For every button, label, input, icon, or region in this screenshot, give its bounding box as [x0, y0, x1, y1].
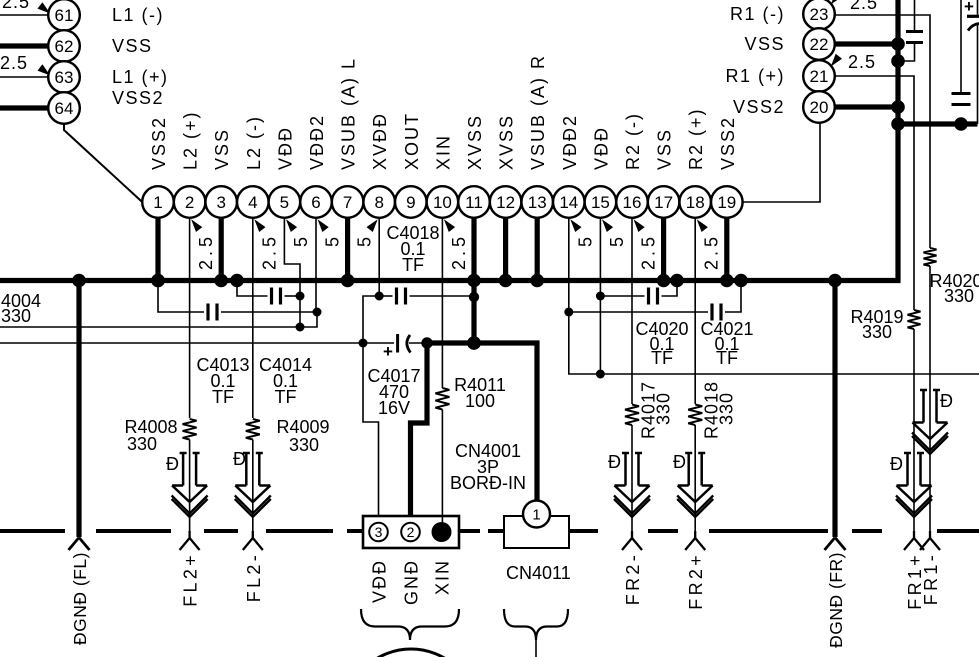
svg-text:2.5: 2.5 [259, 233, 279, 270]
wire pin 64 to pin 1 [64, 124, 142, 202]
wire pin 2 to R4008 [189, 218, 191, 418]
svg-text:BORĐ-IN: BORĐ-IN [450, 473, 526, 493]
pin 1 [142, 186, 174, 218]
wire pin 16 to R4017 [631, 218, 633, 404]
wire pin 20 to pin 19 [743, 123, 820, 202]
junction pin1/C4013 on bus [151, 274, 165, 288]
svg-text:FR2+: FR2+ [686, 552, 706, 610]
CN4001 pin 3 [369, 523, 388, 542]
svg-text:CN4011: CN4011 [506, 563, 571, 583]
wire 2.5V net to pin 63 [0, 76, 48, 78]
capacitor B [952, 92, 971, 95]
voltage arrow 2.5V at pin 4 [254, 219, 265, 232]
voltage arrow 5V at pin 6 [318, 219, 329, 232]
svg-text:VĐĐ: VĐĐ [275, 126, 295, 170]
svg-text:2.5: 2.5 [196, 233, 216, 270]
wire DGND(FL) from bus to board edge [76, 281, 81, 538]
svg-text:2.5: 2.5 [449, 233, 469, 270]
pin 17 [648, 186, 680, 218]
crystal outline (cut off at bottom) [345, 649, 477, 657]
svg-text:2.5: 2.5 [702, 233, 722, 270]
svg-text:330: 330 [717, 392, 737, 425]
junction pin22 [891, 37, 905, 51]
svg-text:TF: TF [212, 387, 234, 407]
resistor R4018 330 [688, 405, 702, 426]
wire bus to capacitor C4014 [237, 281, 268, 297]
svg-text:Đ: Đ [166, 454, 179, 474]
svg-text:FL2-: FL2- [244, 552, 264, 602]
svg-text:R1 (+): R1 (+) [725, 66, 785, 86]
pin 9 [395, 186, 427, 218]
pin 19 [711, 186, 743, 218]
pin 11 [458, 186, 490, 218]
wire C4020 to pin 15 node [600, 295, 644, 297]
capacitor C4014 [270, 288, 273, 305]
signal arrow FR2- [624, 453, 627, 486]
wire bus to capacitor C4020 [662, 281, 678, 297]
svg-text:XIN: XIN [433, 559, 453, 595]
svg-text:62: 62 [55, 37, 74, 56]
capacitor C4020 [647, 288, 650, 305]
svg-text:2.5: 2.5 [848, 52, 876, 72]
CN4001 pin 1 (XIN, keyed) [432, 522, 452, 542]
svg-text:R1 (-): R1 (-) [730, 4, 785, 24]
svg-text:GNĐ: GNĐ [402, 559, 422, 605]
wire pin 19 to VSS bus [724, 218, 729, 281]
svg-text:2: 2 [185, 193, 194, 212]
svg-text:2: 2 [407, 524, 415, 540]
svg-text:330: 330 [862, 322, 892, 342]
svg-text:XVSS: XVSS [465, 114, 485, 170]
junction node A2 [296, 323, 305, 332]
svg-text:8: 8 [374, 193, 383, 212]
svg-text:L2 (+): L2 (+) [181, 110, 201, 170]
svg-text:2.5: 2.5 [0, 53, 28, 73]
svg-text:5: 5 [280, 193, 289, 212]
svg-text:63: 63 [55, 68, 74, 87]
svg-text:VSS: VSS [744, 34, 785, 54]
svg-text:ĐGNĐ (FR): ĐGNĐ (FR) [826, 552, 846, 648]
voltage arrow 5V at pin 14 [570, 219, 581, 232]
pin 15 [585, 186, 617, 218]
capacitor C4021 [710, 304, 713, 321]
pin 6 [300, 186, 332, 218]
svg-text:VĐĐ: VĐĐ [370, 559, 390, 603]
svg-text:FR1-: FR1- [921, 552, 941, 605]
svg-text:330: 330 [127, 434, 157, 454]
svg-text:FL2+: FL2+ [181, 552, 201, 607]
svg-text:+: + [964, 0, 974, 16]
svg-text:5: 5 [323, 233, 343, 247]
junction pin14 node [564, 308, 573, 317]
pin 8 [363, 186, 395, 218]
pin 22 [803, 28, 835, 60]
svg-text:TF: TF [275, 387, 297, 407]
wire XVDD node down to C4017 node [363, 296, 379, 343]
wire pin 12 to VSS bus [503, 218, 508, 281]
resistor R4009 330 [246, 419, 260, 440]
svg-text:18: 18 [686, 193, 705, 212]
svg-text:330: 330 [944, 286, 974, 306]
VSS bus wire [0, 0, 898, 281]
svg-text:5: 5 [291, 233, 311, 247]
wire R4008 to FL2+ connector [189, 440, 191, 539]
wire pin 22 to VSS line [835, 41, 898, 46]
wire R4019 to FR1+ connector [913, 329, 915, 538]
svg-text:3: 3 [216, 193, 225, 212]
wire R4018 to FR2+ connector [694, 425, 696, 538]
wire C4017 to GND node [409, 342, 427, 344]
wire left edge to C4017 [0, 342, 394, 344]
wire cap B to top edge [960, 0, 962, 94]
resistor R4019 330 [908, 310, 921, 329]
svg-text:330: 330 [654, 392, 674, 425]
junction C4020 branch on bus [670, 274, 684, 288]
CN4001 pin 2 [401, 523, 420, 542]
signal arrow FR1+ [906, 453, 909, 486]
svg-text:TF: TF [402, 255, 424, 275]
pin 63 [48, 61, 80, 93]
svg-text:5: 5 [575, 233, 595, 247]
pin 4 [237, 186, 269, 218]
svg-text:2.5: 2.5 [639, 233, 659, 270]
connector finger FR1- [929, 531, 931, 538]
wire pin 7 to VSS bus [345, 218, 350, 281]
wire cap A to top edge [914, 0, 916, 32]
junction GND node [421, 337, 432, 348]
svg-text:XIN: XIN [433, 134, 453, 170]
svg-text:12: 12 [496, 193, 515, 212]
wire pin 18 to R4018 [694, 218, 696, 404]
svg-text:3: 3 [375, 524, 383, 540]
svg-text:15: 15 [591, 193, 610, 212]
pin 2 [174, 186, 206, 218]
junction DGND(FL) on bus [72, 274, 86, 288]
svg-text:Đ: Đ [608, 452, 621, 472]
thick wire GND node to CN4011 [427, 343, 537, 501]
svg-text:330: 330 [1, 306, 31, 326]
svg-text:100: 100 [465, 391, 495, 411]
wire R4017 to FR2- connector [631, 425, 633, 538]
wire bus to capacitor C4021 [725, 281, 741, 313]
svg-text:R2 (+): R2 (+) [686, 107, 706, 170]
CN4011 pin 1 [523, 501, 550, 528]
svg-text:64: 64 [55, 99, 74, 118]
svg-text:1: 1 [153, 193, 162, 212]
resistor R4011 100 [435, 388, 449, 410]
svg-text:XVĐĐ: XVĐĐ [370, 112, 390, 170]
wire pin 20 to VSS line [835, 104, 898, 109]
voltage arrow 5V at pin 15 [602, 219, 613, 232]
wire pin 10 (XIN) down to R4011 [441, 218, 443, 388]
wire R4009 to FL2- connector [252, 440, 254, 539]
svg-text:XVSS: XVSS [497, 114, 517, 170]
svg-text:R2 (-): R2 (-) [623, 112, 643, 170]
wire R4020 to FR1- connector [929, 266, 931, 538]
brace under CN4001 [361, 609, 459, 640]
svg-text:20: 20 [810, 98, 829, 117]
wire cap A to VSS line [898, 43, 915, 62]
svg-text:VSS: VSS [212, 128, 232, 170]
svg-text:L2 (-): L2 (-) [244, 115, 264, 170]
svg-text:XOUT: XOUT [402, 112, 422, 170]
svg-text:ĐGNĐ (FL): ĐGNĐ (FL) [70, 552, 90, 645]
wire pin15 node down to VDD2 row [599, 296, 601, 374]
pin 3 [205, 186, 237, 218]
svg-text:11: 11 [465, 193, 483, 212]
capacitor C4017 (electrolytic 470uF 16V) [367, 334, 420, 418]
connector finger DGND(FL) [69, 538, 80, 551]
svg-text:VSS2: VSS2 [718, 116, 738, 170]
svg-text:5: 5 [607, 233, 627, 247]
wire pin 15 to node C4020 [599, 218, 601, 296]
wire bus to capacitor C4013 [158, 281, 204, 313]
wire pin 4 to R4009 [252, 218, 254, 418]
wire 2.5V net to pin 61 [0, 14, 48, 16]
pin 18 [679, 186, 711, 218]
svg-text:16: 16 [623, 193, 642, 212]
svg-text:17: 17 [654, 193, 673, 212]
signal arrow FL2- [245, 453, 248, 486]
svg-text:6: 6 [311, 193, 320, 212]
signal arrow FL2+ [182, 453, 185, 486]
junction C4021 branch on bus [734, 274, 748, 288]
svg-text:VSS: VSS [112, 36, 153, 56]
svg-text:13: 13 [528, 193, 547, 212]
svg-text:23: 23 [810, 5, 829, 24]
voltage arrow 2.5V at pin 18 [697, 219, 708, 232]
junction C4017 left node [359, 339, 368, 348]
svg-text:16V: 16V [378, 398, 410, 418]
wire C4017 left node to CN4001 pin 3 [363, 343, 379, 516]
capacitor C4013 [206, 304, 209, 321]
svg-text:VSS2: VSS2 [733, 97, 785, 117]
svg-text:9: 9 [406, 193, 415, 212]
svg-text:VSUB (A) R: VSUB (A) R [528, 54, 548, 170]
svg-text:VSS2: VSS2 [112, 88, 164, 108]
electrolytic capacitor top-right [964, 0, 979, 31]
svg-text:TF: TF [716, 348, 738, 368]
junction XVDD node [375, 292, 384, 301]
wire pin 14 to node C4021 [568, 218, 570, 312]
pin 62 [48, 30, 80, 62]
connector finger FR2- [631, 531, 633, 538]
svg-text:FR2-: FR2- [623, 552, 643, 605]
svg-text:Đ: Đ [940, 391, 953, 411]
resistor R4020 330 [924, 248, 937, 266]
junction cap A on VSS line [891, 54, 905, 68]
pin 10 [427, 186, 459, 218]
pin 13 [521, 186, 553, 218]
svg-text:4: 4 [248, 193, 257, 212]
node A junction [296, 292, 305, 301]
voltage arrow 2.5V at pin 10 [444, 219, 455, 232]
svg-text:Đ: Đ [890, 454, 903, 474]
wire pin 11 below bus to XVSS node [471, 281, 476, 344]
resistor R4017 330 [625, 405, 639, 426]
signal arrow FR1- [922, 390, 925, 423]
brace under CN4011 [504, 609, 568, 640]
pin 14 [553, 186, 585, 218]
svg-text:5: 5 [355, 233, 375, 247]
pin 7 [332, 186, 364, 218]
wire pin 11 to VSS bus [471, 218, 476, 281]
svg-text:VSS: VSS [655, 128, 675, 170]
pin 23 [803, 0, 835, 30]
wire pin 5 to node VDD-C4014 [284, 218, 300, 296]
svg-text:L1 (+): L1 (+) [112, 67, 169, 87]
svg-text:Đ: Đ [233, 449, 246, 469]
svg-text:330: 330 [289, 435, 319, 455]
voltage arrow 5V at pin 8 [367, 219, 378, 232]
svg-text:VĐĐ2: VĐĐ2 [560, 114, 580, 170]
junction C4014 branch on bus [230, 274, 244, 288]
junction pin11 line on GND wire [467, 336, 481, 350]
wire below CN4011 brace [535, 640, 537, 657]
wire pin 13 to VSS bus [535, 218, 540, 281]
node B junction [313, 308, 322, 317]
connector CN4001 3P BORD-IN [363, 441, 526, 548]
voltage arrow 2.5V at pin 16 [634, 219, 645, 232]
wire pin 21 to 2.5V/R4019 [835, 76, 914, 310]
svg-text:VĐĐ2: VĐĐ2 [307, 114, 327, 170]
wire R4011 to CN4001 XIN pin [441, 410, 443, 533]
signal arrow FR2+ [687, 453, 690, 486]
connector finger FL2- [252, 531, 254, 538]
svg-text:2.5: 2.5 [2, 0, 30, 12]
svg-text:+: + [383, 342, 393, 361]
wire node A down to VDD return row [299, 296, 301, 327]
svg-text:14: 14 [559, 193, 578, 212]
wire pin 6 to node VDD2-C4013 [315, 218, 317, 312]
pin 64 [48, 92, 80, 124]
capacitor top-right A [906, 30, 923, 33]
wire pin 23 to 2.5V/R4020 [835, 15, 930, 248]
VDD return wire to left edge [0, 326, 300, 328]
wire DGND(FR) from bus to board edge [832, 281, 837, 538]
wire pin 17 to VSS bus [661, 218, 666, 281]
svg-text:Đ: Đ [673, 452, 686, 472]
voltage arrow 5V at pin 5 [286, 219, 297, 232]
svg-text:22: 22 [810, 35, 829, 54]
resistor R4008 330 [183, 419, 197, 440]
svg-text:19: 19 [717, 193, 736, 212]
connector CN4011 [504, 516, 571, 583]
svg-text:TF: TF [651, 348, 673, 368]
wire node A2 to node B [300, 312, 317, 327]
wire pin 3 to VSS bus [219, 218, 224, 281]
pin 21 [803, 60, 835, 92]
wire pin 8 to node XVDD [378, 218, 380, 296]
pin 16 [616, 186, 648, 218]
junction pin15 node [596, 292, 605, 301]
junction VSS line lower [891, 117, 905, 131]
wire XVDD node to C4018 [379, 295, 392, 297]
wire VSS2 to pin 64 [0, 105, 48, 110]
board edge line [0, 529, 979, 533]
svg-text:R4009: R4009 [276, 417, 329, 437]
svg-text:10: 10 [433, 193, 452, 212]
wire C4013 to node B [221, 311, 317, 313]
voltage arrow 2.5V at pin 2 [191, 219, 202, 232]
pin 20 [803, 91, 835, 123]
thick wire VSS line to right caps [898, 121, 978, 126]
connector finger DGND(FR) [825, 538, 836, 551]
pin 12 [490, 186, 522, 218]
connector finger FR1+ [913, 531, 915, 538]
svg-text:VĐĐ: VĐĐ [591, 126, 611, 170]
svg-text:VSS2: VSS2 [149, 116, 169, 170]
wire C4021 to pin 14 node [569, 311, 708, 313]
wire pin14 node down to VDD2 row [569, 312, 979, 374]
pin 5 [269, 186, 301, 218]
wire VSS to pin 62 [0, 43, 48, 48]
svg-text:2.5: 2.5 [850, 0, 878, 13]
connector finger FR2+ [694, 531, 696, 538]
svg-text:61: 61 [55, 6, 74, 25]
svg-text:21: 21 [810, 67, 829, 86]
junction pin15 on VDD2 row [596, 370, 605, 379]
junction cap B [954, 117, 968, 131]
thick wire GND node to CN4001 pin 2 [411, 343, 428, 516]
svg-text:7: 7 [343, 193, 352, 212]
wire pin 1 to VSS bus [155, 218, 160, 281]
svg-text:VSUB (A) L: VSUB (A) L [339, 57, 359, 170]
wire C4014 to node A [285, 295, 301, 297]
junction pin20 [891, 100, 905, 114]
junction DGND(FR) on bus [828, 274, 842, 288]
pin 61 [48, 0, 80, 31]
connector finger FL2+ [188, 531, 190, 538]
capacitor C4018 [395, 288, 398, 305]
wire electrolytic to VSS right line [977, 25, 979, 124]
svg-text:1: 1 [532, 506, 540, 523]
svg-text:L1 (-): L1 (-) [112, 5, 164, 25]
wire C4018 to pin 11 line [410, 295, 475, 297]
